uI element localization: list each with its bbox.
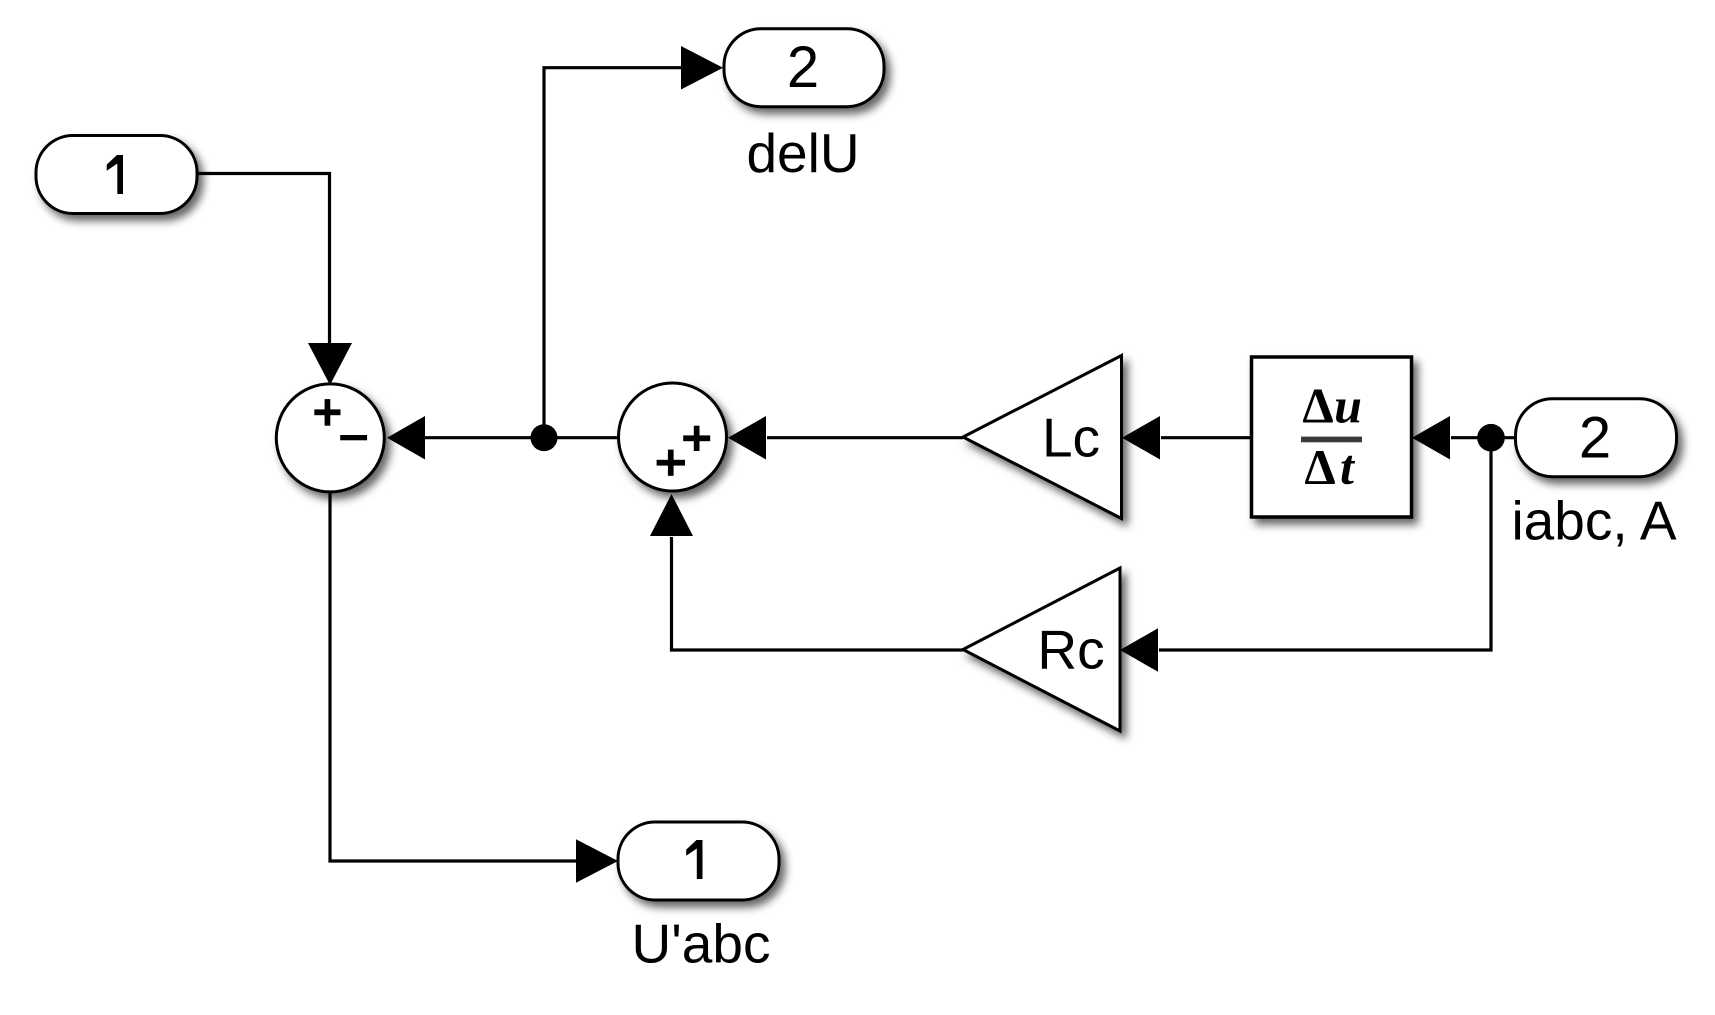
svg-text:Δ: Δ (1304, 439, 1335, 495)
svg-text:delU: delU (746, 122, 859, 184)
arrowhead into sum S2 bottom port (650, 494, 693, 536)
node junction dot on iabc branch (1477, 424, 1505, 452)
svg-text:Δ: Δ (1302, 378, 1333, 434)
gain block Lc (963, 356, 1122, 519)
wire from sum S2 left to sum S1 right (424, 436, 618, 439)
outport 1 block (U'abc) (618, 822, 779, 900)
wire from gain Lc output to sum S2 right (767, 436, 963, 439)
arrowhead into sum S1 top port (308, 343, 352, 385)
name label U'abc (632, 913, 771, 975)
sum block S1 (276, 384, 384, 492)
wire from derivative block to gain Lc (1161, 436, 1251, 439)
inport 2 block (iabc) (1516, 399, 1677, 477)
wire from Inport 2 to derivative block (1451, 436, 1516, 439)
arrowhead into gain Lc input (1122, 416, 1160, 460)
svg-text:u: u (1334, 378, 1362, 434)
outport 2 block (delU) (724, 29, 884, 107)
derivative fraction bar (1301, 437, 1362, 443)
wire from iabc junction down to gain Rc (1159, 438, 1491, 650)
gain Rc value label (1037, 619, 1104, 681)
arrowhead into derivative block input (1412, 416, 1450, 460)
wire from gain Rc output to sum S2 bottom (672, 537, 964, 650)
svg-text:U'abc: U'abc (632, 913, 771, 975)
name label iabc, A (1511, 489, 1676, 551)
derivative block Δu/Δt (1252, 357, 1412, 517)
arrowhead into Outport 2 delU (681, 46, 723, 90)
inport 2 label "2" (1579, 405, 1611, 470)
wire from sum S1 bottom to Outport U'abc (330, 492, 577, 861)
svg-text:Rc: Rc (1037, 619, 1104, 681)
node junction dot on delU branch (531, 424, 558, 451)
sum S2 plus sign (right port) (683, 426, 710, 451)
outport 1 label "1" (686, 840, 702, 879)
svg-text:2: 2 (1579, 405, 1611, 470)
wire from junction up and right to Outport delU (544, 68, 682, 438)
arrowhead into gain Rc input (1120, 628, 1158, 672)
sum S1 minus sign (340, 435, 367, 440)
sum block S2 (619, 383, 727, 491)
svg-text:2: 2 (787, 35, 819, 100)
derivative denominator Δt (1304, 439, 1356, 495)
gain block Rc (963, 568, 1120, 731)
name label delU (746, 122, 859, 184)
inport 1 label "1" (107, 155, 123, 194)
arrowhead into sum S1 right port (387, 416, 425, 460)
svg-text:Lc: Lc (1042, 407, 1100, 469)
svg-text:iabc, A: iabc, A (1511, 489, 1676, 551)
inport 1 block (36, 136, 197, 214)
wire from Inport 1 to sum S1 top (197, 174, 330, 345)
sum S2 plus sign (bottom port) (657, 450, 685, 476)
arrowhead into Outport 1 U'abc (576, 839, 618, 883)
arrowhead into sum S2 right port (728, 416, 766, 460)
derivative numerator Δu (1302, 378, 1362, 434)
sum S1 plus sign (314, 399, 340, 426)
gain Lc value label (1042, 407, 1100, 469)
outport 2 label "2" (787, 35, 819, 100)
svg-text:t: t (1340, 439, 1356, 495)
